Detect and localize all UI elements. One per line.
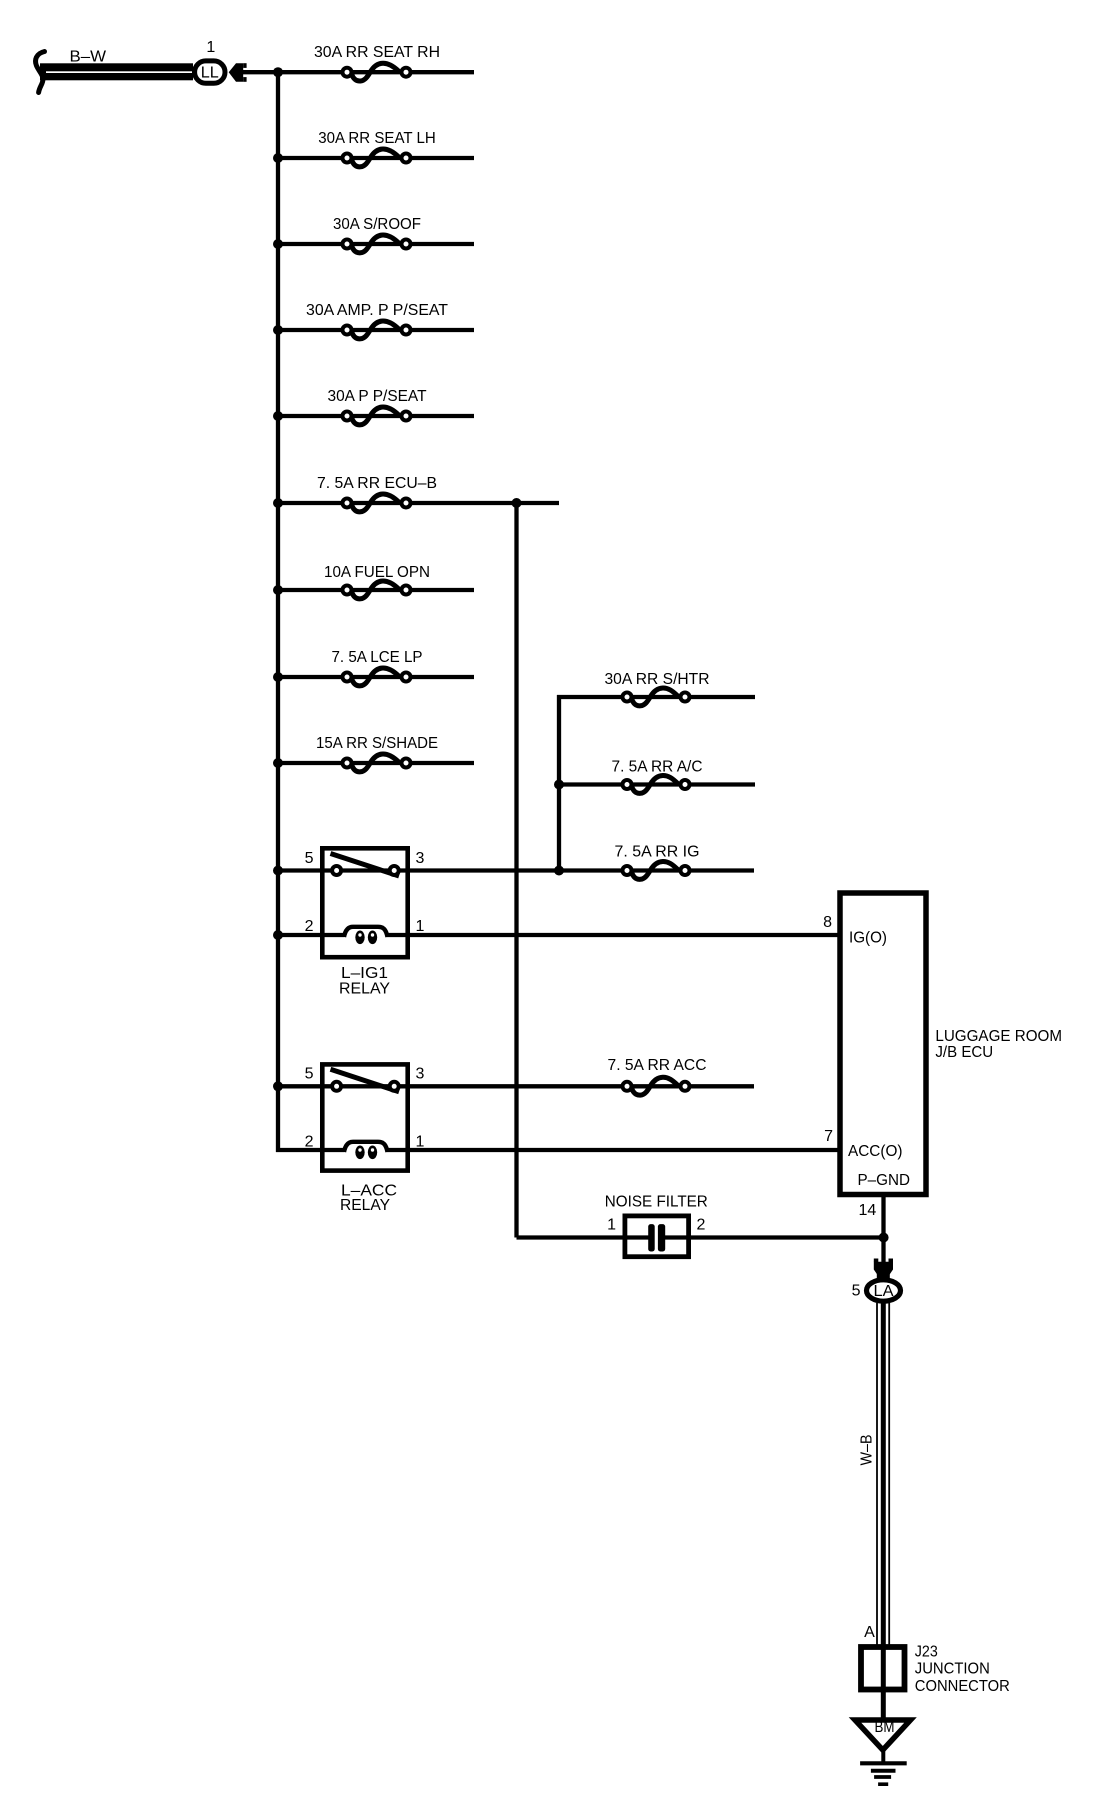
svg-text:J23: J23 [915,1644,938,1661]
svg-text:30A RR S/HTR: 30A RR S/HTR [605,671,710,688]
node bus/row8 [273,672,283,682]
fuse 30A P P/SEAT [328,388,427,425]
wire noise filter row [517,1235,882,1239]
main bus wire (vertical) [276,70,280,1152]
relay L-IG1 [322,848,407,957]
svg-text:30A S/ROOF: 30A S/ROOF [333,216,421,233]
ground BM [855,1719,911,1750]
svg-text:5: 5 [305,850,314,867]
svg-text:1: 1 [416,1134,425,1151]
wire B-W harness splice squiggle [36,52,45,93]
relay L-ACC [322,1064,407,1170]
svg-text:1: 1 [416,918,425,935]
svg-text:IG(O): IG(O) [849,930,887,947]
svg-text:30A P P/SEAT: 30A P P/SEAT [328,388,427,405]
label L-ACC RELAY [340,1183,397,1215]
wire fuse row 3 [278,242,474,246]
node bus/row1 [273,67,283,77]
svg-text:7. 5A RR ECU–B: 7. 5A RR ECU–B [317,475,437,492]
junction connector J23 [861,1647,905,1690]
svg-text:14: 14 [859,1202,877,1219]
fuse 30A S/ROOF [333,216,421,253]
fuse 7.5A RR IG [615,844,700,880]
svg-text:5: 5 [305,1066,314,1083]
svg-text:CONNECTOR: CONNECTOR [915,1678,1010,1695]
wire ground stem [881,1750,885,1763]
svg-text:7. 5A RR A/C: 7. 5A RR A/C [612,758,703,775]
wire fuse row 4 [278,328,474,332]
node bus/row9 [273,758,283,768]
svg-text:W–B: W–B [859,1435,876,1466]
fuse 7.5A LCE LP [332,649,423,686]
wire from connector to bus [241,70,278,74]
svg-text:NOISE FILTER: NOISE FILTER [605,1194,708,1211]
wire fuse row S/HTR [557,695,755,699]
svg-text:7. 5A LCE LP: 7. 5A LCE LP [332,649,423,666]
node bus/row2 [273,153,283,163]
label L-IG1 RELAY [339,965,390,998]
node bus/row6 [273,498,283,508]
wire switch row L-ACC to fuse RR ACC [278,1084,754,1088]
wire W-B (white with black stripe) [877,1302,889,1719]
wire fuse row 2 [278,156,474,160]
node branch/relay1 switch [554,866,564,876]
label LUGGAGE ROOM J/B ECU [935,1028,1062,1061]
wire fuse row 7 [278,588,474,592]
svg-text:LA: LA [874,1283,894,1300]
svg-text:LUGGAGE ROOM: LUGGAGE ROOM [935,1028,1062,1045]
svg-text:3: 3 [416,1066,425,1083]
connector arrow to LA [874,1259,893,1280]
svg-text:2: 2 [305,918,314,935]
node bus/relay2 switch [273,1081,283,1091]
ECU box LUGGAGE ROOM J/B ECU [840,893,926,1195]
svg-text:RELAY: RELAY [340,1197,390,1214]
wire switch row L-IG1 to fuse RR IG [278,868,754,872]
svg-text:ACC(O): ACC(O) [848,1143,903,1160]
svg-text:B–W: B–W [70,49,107,66]
svg-text:30A AMP. P P/SEAT: 30A AMP. P P/SEAT [306,302,448,319]
wire P-GND stem [881,1194,885,1263]
node bus/row3 [273,239,283,249]
svg-text:7. 5A RR IG: 7. 5A RR IG [615,844,700,861]
noise filter [625,1216,689,1257]
svg-text:5: 5 [852,1283,861,1300]
fuse 7.5A RR ACC [608,1057,707,1095]
wire coil row L-ACC to ECU ACC(O) [276,1148,838,1152]
svg-text:J/B ECU: J/B ECU [935,1044,993,1061]
fuse 30A RR S/HTR [605,671,710,706]
node bus/row5 [273,411,283,421]
svg-text:1: 1 [607,1217,616,1234]
svg-text:2: 2 [697,1217,706,1234]
ground hash [860,1763,907,1784]
svg-text:BM: BM [875,1719,895,1736]
connector LA [867,1280,901,1301]
svg-text:3: 3 [416,850,425,867]
wire coil row L-IG1 to ECU IG(O) [278,933,838,937]
svg-text:10A FUEL OPN: 10A FUEL OPN [324,564,430,581]
svg-text:A: A [864,1624,875,1641]
fuse 15A RR S/SHADE [316,735,438,772]
node bus/row4 [273,325,283,335]
fuse 7.5A RR A/C [612,758,703,793]
connector arrow (male-female) [229,63,247,82]
wire fuse row 8 [278,675,474,679]
wire branch vertical (ECU-B to noise filter) [514,503,518,1238]
node row6/branch vertical [512,498,522,508]
fuse 30A RR SEAT RH [314,44,440,81]
connector LL [195,61,225,83]
wire fuse row 9 [278,761,474,765]
svg-text:RELAY: RELAY [339,981,390,998]
label J23 JUNCTION CONNECTOR [915,1644,1010,1696]
wire fuse row 5 [278,414,474,418]
wire fuse row 1 [278,70,474,74]
node bus/row7 [273,585,283,595]
svg-text:7. 5A RR ACC: 7. 5A RR ACC [608,1057,707,1074]
node P-GND/noise filter [879,1233,889,1243]
svg-text:7: 7 [824,1128,833,1145]
svg-text:15A RR S/SHADE: 15A RR S/SHADE [316,735,438,752]
svg-text:L–IG1: L–IG1 [341,965,388,982]
node branch/AC [554,780,564,790]
svg-text:P–GND: P–GND [858,1172,911,1189]
svg-text:8: 8 [823,914,832,931]
svg-text:JUNCTION: JUNCTION [915,1661,990,1678]
wire second branch vertical [557,695,561,873]
fuse 30A RR SEAT LH [318,130,436,167]
fuse 7.5A RR ECU-B [317,475,437,512]
svg-text:30A RR SEAT LH: 30A RR SEAT LH [318,130,436,147]
svg-text:1: 1 [206,39,215,56]
fuse 30A AMP. P P/SEAT [306,302,448,339]
svg-text:30A RR SEAT RH: 30A RR SEAT RH [314,44,440,61]
fuse 10A FUEL OPN [324,564,430,599]
wire fuse row 6 [278,501,559,505]
svg-text:LL: LL [201,65,219,82]
node bus/relay1 coil [273,930,283,940]
node bus/relay1 switch [273,866,283,876]
wire B-W harness (thick) [40,63,193,80]
svg-text:2: 2 [305,1134,314,1151]
wire fuse row A/C [559,782,755,786]
